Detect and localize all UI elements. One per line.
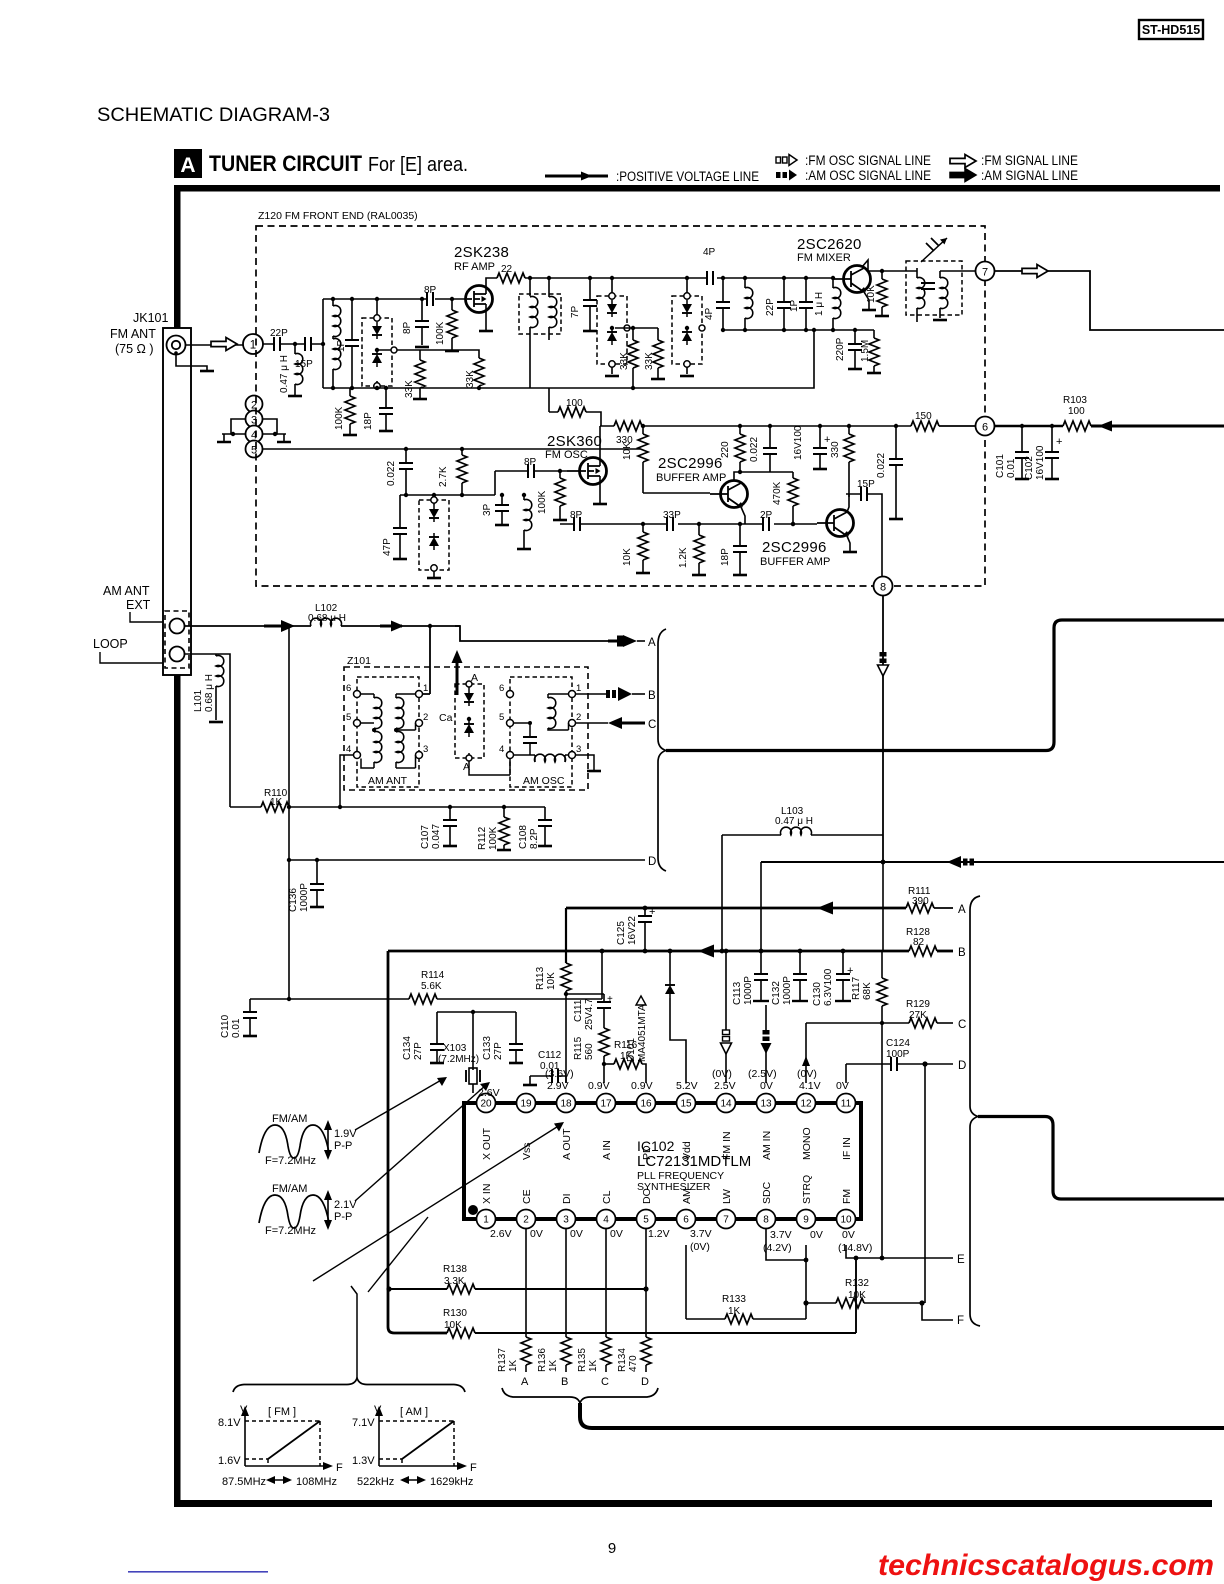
svg-text:1: 1	[483, 1215, 489, 1226]
tank1 coil	[331, 297, 341, 390]
capacitor 2P	[760, 510, 773, 531]
svg-text:(0V): (0V)	[690, 1241, 710, 1253]
svg-text:8P: 8P	[424, 285, 437, 296]
svg-text:1000P: 1000P	[299, 883, 310, 912]
svg-text:33K: 33K	[465, 370, 476, 388]
svg-text:27K: 27K	[909, 1010, 927, 1021]
svg-text:R116: R116	[614, 1040, 638, 1051]
capacitor 8P shunt	[402, 297, 429, 347]
svg-text:B: B	[648, 690, 656, 702]
pin4 CL wire down	[605, 1229, 607, 1338]
leader line to pin18	[313, 1122, 564, 1281]
svg-text:100K: 100K	[488, 826, 499, 850]
svg-text:9: 9	[608, 1540, 616, 1557]
capacitor 4P shunt	[704, 276, 730, 332]
varactor diode D4a	[429, 505, 439, 522]
svg-text:[ AM ]: [ AM ]	[400, 1406, 428, 1418]
riser from R130 bus to E row	[855, 1258, 857, 1333]
svg-text:L101: L101	[193, 689, 204, 712]
capacitor C133 27P	[482, 1036, 523, 1063]
capacitor 1P shunt	[789, 276, 813, 332]
node 1	[243, 334, 263, 354]
pin 7	[717, 1210, 736, 1229]
IC102 bottom pins 1..10	[477, 1210, 856, 1229]
R115/C111 chain to pin17	[566, 994, 613, 1083]
svg-text:X OUT: X OUT	[481, 1127, 493, 1160]
svg-text:0.47 μ H: 0.47 μ H	[279, 355, 290, 393]
svg-text:2.5V: 2.5V	[714, 1080, 736, 1092]
svg-text:2SC2996: 2SC2996	[762, 539, 827, 556]
svg-text:IF IN: IF IN	[841, 1137, 853, 1160]
svg-text:27P: 27P	[493, 1042, 504, 1060]
svg-text:3.7V: 3.7V	[690, 1228, 712, 1240]
svg-text:5.6K: 5.6K	[421, 981, 442, 992]
svg-text:[ FM ]: [ FM ]	[268, 1406, 296, 1418]
Ca junction dot	[467, 717, 471, 721]
pin5 DO wire down	[645, 1229, 647, 1338]
wire loop lower to R110 column	[216, 654, 230, 807]
svg-text:4P: 4P	[704, 307, 715, 320]
varactor dashed box (osc)	[419, 493, 449, 578]
resistor 10K (row shunt)	[622, 522, 650, 573]
AM ANT pins	[346, 683, 428, 759]
svg-text:C111: C111	[573, 999, 584, 1022]
svg-text:330: 330	[830, 441, 841, 458]
capacitor C132 1000P	[771, 949, 808, 1005]
svg-text:FM/AM: FM/AM	[272, 1113, 307, 1125]
svg-text:1629kHz: 1629kHz	[430, 1476, 473, 1488]
svg-text:1.5M: 1.5M	[860, 340, 871, 362]
buffer1 label 2SC2996	[656, 455, 726, 484]
svg-text:C113: C113	[732, 981, 743, 1005]
pin6 AM wire down to R133 row	[685, 1245, 687, 1319]
svg-text:1.2K: 1.2K	[678, 547, 689, 568]
svg-text:CL: CL	[601, 1190, 613, 1204]
resistor 2.7K	[438, 447, 467, 497]
mixer tank bottom wire	[723, 329, 874, 331]
svg-text:(75 Ω ): (75 Ω )	[115, 342, 154, 356]
varactor dashed box tank1	[362, 297, 392, 390]
AM OSC cap	[514, 721, 538, 755]
inductor L102 0.68uH	[308, 603, 460, 694]
svg-text:F=7.2MHz: F=7.2MHz	[265, 1225, 316, 1237]
FM signal out wire	[995, 265, 1224, 331]
resistor R113 10K	[535, 963, 571, 996]
svg-text:+: +	[1056, 436, 1062, 448]
resistor 150 (series rail)	[911, 411, 976, 433]
svg-text:R112: R112	[477, 826, 488, 850]
E row junctions	[880, 1256, 885, 1261]
svg-text:R135: R135	[577, 1348, 588, 1372]
pin 8	[757, 1210, 776, 1229]
R110 row continues	[340, 806, 545, 808]
svg-text:15P: 15P	[857, 479, 875, 490]
AM ANT transformer dashed box	[357, 677, 419, 787]
2SK360 source ground	[593, 476, 607, 504]
svg-text:LOOP: LOOP	[93, 637, 128, 651]
pin10 FM wire to E	[846, 1245, 965, 1266]
D to F drop wire	[924, 1064, 926, 1303]
svg-text:5: 5	[643, 1215, 649, 1226]
svg-text:A: A	[180, 154, 195, 177]
thick loop wire from left brace to right edge	[666, 620, 1224, 751]
border left bar	[174, 185, 181, 1507]
resistor R116 1K	[602, 1040, 646, 1083]
wire 100-row	[549, 388, 601, 426]
svg-text:P-P: P-P	[334, 1211, 352, 1223]
svg-text:18P: 18P	[363, 412, 374, 430]
connector JK101 body	[110, 311, 191, 675]
pin 11	[837, 1094, 856, 1113]
pin 17	[597, 1094, 616, 1113]
svg-text:27P: 27P	[413, 1042, 424, 1060]
svg-text:MONO: MONO	[801, 1127, 813, 1160]
svg-text:8P: 8P	[570, 510, 583, 521]
svg-text:20: 20	[480, 1099, 492, 1110]
capacitor 16V100 (electrolytic)	[793, 424, 830, 469]
pin 5	[637, 1210, 656, 1229]
resistor R133 1K row	[686, 1294, 806, 1324]
svg-text:R134: R134	[617, 1348, 628, 1372]
pin 9	[797, 1210, 816, 1229]
svg-text:150: 150	[915, 411, 932, 422]
varactor tap wire	[375, 347, 420, 360]
pin 3	[557, 1210, 576, 1229]
svg-text:0.022: 0.022	[876, 453, 887, 478]
node 7	[976, 262, 995, 281]
svg-text:2: 2	[523, 1215, 529, 1226]
svg-text:C110: C110	[220, 1014, 231, 1038]
inductor (mixer tank)	[743, 276, 753, 332]
capacitor 8P (series in top rail)	[424, 285, 437, 306]
B rail	[388, 950, 909, 953]
svg-text:0.022: 0.022	[386, 461, 397, 486]
svg-text:1.6V: 1.6V	[218, 1455, 241, 1467]
small voltage arrows top	[587, 1078, 637, 1087]
svg-text:(0V): (0V)	[712, 1068, 732, 1080]
capacitor 18P	[363, 386, 393, 431]
resistor 33K #2	[420, 350, 484, 390]
svg-text:R133: R133	[722, 1294, 746, 1305]
FM IN feed wire + FM OSC arrow down	[721, 949, 732, 1083]
FM jack contact	[167, 336, 186, 355]
svg-text:87.5MHz: 87.5MHz	[222, 1476, 266, 1488]
wire to A (left group)	[0, 0, 1, 1]
svg-text:DO: DO	[641, 1188, 653, 1204]
svg-text:10K: 10K	[546, 972, 557, 990]
resistor R135 1K	[577, 1337, 611, 1388]
IC102 labels	[637, 1138, 751, 1193]
svg-text:3: 3	[576, 744, 581, 755]
Ca bottom wire to AM OSC	[469, 755, 510, 775]
svg-text:100: 100	[1068, 406, 1085, 417]
A OUT junction to IC pin18	[565, 994, 567, 1083]
svg-text:LW: LW	[721, 1189, 733, 1204]
svg-text:7: 7	[982, 267, 988, 279]
resistor 10K (buffer1 bias upper)	[622, 424, 648, 493]
pin 6	[677, 1210, 696, 1229]
svg-text:F: F	[336, 1462, 343, 1474]
svg-text:C: C	[601, 1376, 609, 1388]
inductor 0.47uH	[279, 344, 303, 396]
svg-text:BUFFER AMP: BUFFER AMP	[760, 556, 830, 568]
vertical from L102 node to D row	[288, 626, 290, 860]
svg-text:7: 7	[723, 1215, 729, 1226]
IC102 top pin names (rotated)	[481, 1127, 853, 1160]
svg-text:8.1V: 8.1V	[218, 1417, 241, 1429]
svg-text:1K: 1K	[270, 797, 283, 808]
svg-text:0V: 0V	[836, 1080, 849, 1092]
svg-text:SCHEMATIC DIAGRAM-3: SCHEMATIC DIAGRAM-3	[97, 104, 330, 126]
node3/4 bracket wires and grounds	[217, 419, 291, 442]
svg-text:5: 5	[346, 712, 351, 723]
svg-text:522kHz: 522kHz	[357, 1476, 394, 1488]
AM OSC bottom winding	[514, 754, 569, 762]
AM loop connector dashed box	[165, 611, 189, 668]
svg-text:2.6V: 2.6V	[490, 1228, 512, 1240]
svg-text:4: 4	[346, 744, 351, 755]
svg-text:C112: C112	[538, 1050, 562, 1061]
AM IN feed wire + AM OSC arrow down	[761, 1005, 772, 1083]
svg-text:Z101: Z101	[347, 655, 371, 667]
wire jack to node 1 with FM signal arrow	[185, 338, 243, 351]
varactor diode D4b	[429, 533, 439, 550]
svg-text:6: 6	[346, 683, 351, 694]
D wire (left group)	[287, 856, 657, 868]
junction	[293, 342, 297, 346]
svg-text:R129: R129	[906, 999, 930, 1010]
svg-text:1K: 1K	[588, 1359, 599, 1372]
capacitor 8P (row in)	[570, 510, 583, 531]
svg-text:R137: R137	[497, 1348, 508, 1372]
blue underline artifact	[128, 1571, 268, 1573]
svg-text:0V: 0V	[810, 1229, 823, 1241]
svg-text:2SK238: 2SK238	[454, 244, 509, 261]
svg-text:2.7K: 2.7K	[438, 466, 449, 487]
svg-text:3.3K: 3.3K	[444, 1276, 465, 1287]
B arrow (left group)	[576, 687, 657, 702]
svg-text::FM SIGNAL LINE: :FM SIGNAL LINE	[981, 153, 1078, 168]
leader line to crystal	[355, 1077, 447, 1130]
svg-text:5: 5	[499, 712, 504, 723]
tank1 top rail	[323, 298, 467, 300]
svg-text:15: 15	[680, 1099, 692, 1110]
pin 4	[597, 1210, 616, 1229]
svg-text:33P: 33P	[663, 510, 681, 521]
svg-text:D: D	[641, 1376, 649, 1388]
capacitor C130 6.3V100 (electrolytic)	[812, 949, 853, 1006]
svg-text:R113: R113	[535, 966, 546, 990]
graphs overbrace	[233, 1378, 465, 1392]
Z101 dashed box	[344, 667, 588, 790]
pin 19	[517, 1094, 536, 1113]
capacitor C136 1000P	[288, 858, 324, 912]
svg-text:JK101: JK101	[133, 311, 168, 325]
R117 lower leg	[881, 1023, 883, 1258]
thick bus from right brace to edge	[978, 1117, 1224, 1200]
svg-text:1.2V: 1.2V	[648, 1228, 670, 1240]
svg-text:R103: R103	[1063, 395, 1087, 406]
Ca diode b	[464, 720, 474, 737]
AM ANT windings	[361, 694, 382, 768]
varactor diode D3b	[682, 328, 692, 345]
Ca varactor dashed box	[439, 672, 484, 773]
resistor R114 5.6K row	[250, 970, 602, 1004]
capacitor 47P	[382, 495, 407, 559]
diode D101 MA4051MTA	[626, 949, 686, 1083]
inductor L103 0.47uH	[722, 806, 883, 835]
pin 1	[477, 1210, 496, 1229]
legend: FM signal line	[950, 153, 1078, 168]
svg-text:47P: 47P	[382, 538, 393, 556]
AM OSC out row to right edge	[761, 835, 1224, 951]
capacitor C101 0.01	[995, 424, 1029, 479]
svg-text:R114: R114	[421, 970, 445, 981]
C wire (right group) + resistor R129 27K	[806, 999, 966, 1031]
A rail	[566, 908, 906, 963]
svg-text::POSITIVE VOLTAGE LINE: :POSITIVE VOLTAGE LINE	[616, 169, 759, 184]
svg-text:FM MIXER: FM MIXER	[797, 252, 851, 264]
svg-text:F=7.2MHz: F=7.2MHz	[265, 1155, 316, 1167]
svg-text:0.47 μ H: 0.47 μ H	[775, 816, 813, 827]
AM OSC transformer dashed box	[510, 677, 572, 787]
resistor R103 100 + positive feed	[995, 395, 1224, 432]
junction row/470K	[791, 522, 795, 526]
svg-text:1K: 1K	[548, 1359, 559, 1372]
svg-text:220P: 220P	[835, 337, 846, 361]
resistor 100K (osc)	[537, 469, 567, 520]
svg-text:R130: R130	[443, 1308, 467, 1319]
svg-text:C125: C125	[616, 921, 627, 945]
svg-text:33K: 33K	[619, 352, 630, 370]
wire node1 chain	[263, 343, 323, 345]
svg-text:Ca: Ca	[439, 712, 453, 724]
svg-text:B: B	[958, 947, 966, 959]
svg-text:2: 2	[576, 712, 581, 723]
svg-text:E: E	[957, 1254, 965, 1266]
capacitor 18P (row shunt)	[720, 522, 747, 575]
resistor 1.2K	[678, 522, 706, 575]
svg-text:18: 18	[560, 1099, 572, 1110]
inductor (osc)	[517, 493, 532, 549]
capacitor 15P	[295, 337, 313, 370]
capacitor 3P	[482, 493, 509, 525]
svg-text:C108: C108	[518, 825, 529, 849]
svg-text:4: 4	[499, 744, 504, 755]
AM signal arrow 2	[380, 625, 402, 628]
svg-text:0V: 0V	[570, 1228, 583, 1240]
AM signal arrow 1	[264, 625, 282, 628]
resistor 100K #2	[435, 297, 459, 351]
IF transformer dashed box	[906, 261, 975, 322]
pin 20	[477, 1094, 496, 1113]
svg-text:11: 11	[841, 1099, 852, 1110]
transformer T1 dashed box	[519, 276, 561, 388]
capacitor 33P	[663, 510, 681, 531]
svg-text:C101: C101	[995, 454, 1006, 478]
dashed box Z120 FM FRONT END	[256, 210, 985, 586]
bottom voltage labels	[490, 1228, 872, 1254]
svg-text:0.9V: 0.9V	[631, 1080, 653, 1092]
AM OSC arrow on row	[947, 856, 974, 868]
resistor 1.5M	[860, 330, 881, 373]
varactor3 tap circle	[699, 325, 705, 331]
svg-text:6: 6	[499, 683, 504, 694]
resistor R117 68K	[851, 951, 887, 1023]
svg-text:10K: 10K	[622, 442, 633, 460]
2SC2620 collector to IF	[862, 260, 906, 271]
svg-text:ST-HD515: ST-HD515	[1142, 23, 1200, 37]
svg-text:R136: R136	[537, 1348, 548, 1372]
AM ANT pin4 wire	[340, 755, 354, 807]
IF IN feed wire	[845, 1064, 847, 1083]
svg-text:+: +	[649, 906, 655, 918]
transistor 2SK360 FM OSC	[545, 433, 607, 485]
svg-text:D: D	[958, 1060, 966, 1072]
buffer1 base wire	[643, 492, 710, 494]
wire branch to left brace A	[455, 626, 608, 641]
svg-text:10K: 10K	[444, 1320, 462, 1331]
svg-text:FM: FM	[841, 1189, 853, 1204]
thick bus from underbrace to right edge	[580, 1403, 1224, 1428]
svg-text:0.01: 0.01	[1006, 458, 1017, 478]
svg-text:22P: 22P	[765, 298, 776, 316]
svg-text:D: D	[648, 856, 656, 868]
signal row y=524	[560, 523, 817, 525]
svg-text:1K: 1K	[620, 1051, 633, 1062]
transistor 2SC2996 buffer1	[710, 481, 748, 508]
capacitor C108 8.2P	[518, 807, 552, 849]
L103 drop to B rail	[721, 835, 723, 951]
underbrace A-D	[502, 1388, 658, 1403]
capacitor 0.022 (node6)	[876, 424, 903, 519]
pin 15	[677, 1094, 696, 1113]
svg-text:R115: R115	[573, 1036, 584, 1060]
resistor 220	[720, 424, 745, 474]
svg-text:33K: 33K	[404, 380, 415, 398]
svg-text:9: 9	[803, 1215, 809, 1226]
svg-text:8P: 8P	[402, 321, 413, 334]
svg-text:AM OSC: AM OSC	[523, 775, 565, 787]
svg-text:10K: 10K	[622, 548, 633, 566]
B rail arrow	[698, 945, 714, 958]
svg-text::AM SIGNAL LINE: :AM SIGNAL LINE	[981, 168, 1078, 183]
varactor diode D2a	[607, 300, 617, 317]
model number box ST-HD515	[1139, 20, 1203, 39]
resistor 330 #2	[830, 424, 854, 497]
svg-text:1: 1	[423, 683, 428, 694]
AM OSC winding	[548, 694, 569, 730]
svg-text:MA4051MTA: MA4051MTA	[637, 1004, 648, 1062]
variable tuning cap symbol	[921, 238, 947, 262]
svg-text:X IN: X IN	[481, 1184, 493, 1204]
svg-text:For [E] area.: For [E] area.	[368, 154, 468, 176]
resistor 100	[558, 398, 586, 417]
svg-text:1K: 1K	[508, 1359, 519, 1372]
svg-text:1.3V: 1.3V	[352, 1455, 375, 1467]
svg-text:5.2V: 5.2V	[676, 1080, 698, 1092]
resistor 33K #3	[619, 326, 638, 390]
svg-text:C: C	[648, 719, 656, 731]
pin8 SDC wire down	[766, 1229, 806, 1261]
svg-text:8: 8	[880, 582, 886, 594]
varactor diode D1b	[372, 350, 382, 367]
IC102 bottom pin names (rotated)	[481, 1175, 853, 1204]
section label A box	[174, 149, 468, 178]
svg-text:82: 82	[913, 937, 925, 948]
wire osc injection	[633, 330, 814, 388]
crystal X103	[438, 1043, 480, 1093]
